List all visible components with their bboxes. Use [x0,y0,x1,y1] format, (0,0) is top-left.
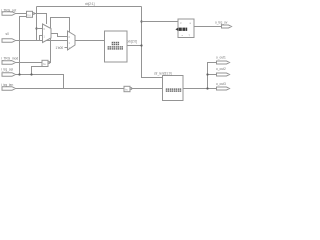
text module U2 dark band [175,28,187,31]
input port P2 [2,39,16,43]
svg-text:i_trg_len: i_trg_len [1,83,14,87]
svg-text:o_trg_ov: o_trg_ov [215,20,228,24]
module U3 trigger block [163,76,184,101]
svg-text:i_TRG_set: i_TRG_set [1,9,17,13]
wire G1 output [34,14,47,25]
module U1 shift register block [105,31,128,62]
wire P2 bus to mux M2 [16,40,68,42]
svg-text:1'b00: 1'b00 [56,46,64,50]
wire U3 output to out3 [183,88,217,90]
wire G2 output riser to M2 select [49,18,70,63]
wire input port P1 to gate G1 [16,13,27,15]
svg-text:s0: s0 [6,32,10,36]
wire P4 select bus [16,75,64,89]
node junction U1 out [140,44,142,46]
node junction M1 input [35,27,37,29]
wire G1 lower input from select column [20,17,27,75]
output port out1 [217,61,230,64]
input port P1 [2,12,16,16]
mux M2 [68,31,76,50]
wire node to mux M1 input 0 [37,28,43,30]
module U2 compare block [178,19,194,38]
wire constant stub to M2 [65,47,68,49]
wire M1 input 1 riser [40,36,43,41]
wire G2 lower input from select column [32,67,43,75]
input port P3 [2,61,16,65]
svg-text:o_out3: o_out3 [216,82,226,86]
svg-text:ctr_len[31:0]: ctr_len[31:0] [154,72,172,76]
svg-text:i_trg_sel: i_trg_sel [1,68,14,72]
svg-text:xb[2:0]: xb[2:0] [128,40,138,44]
node junction select to G2 [30,73,32,75]
output port out2 [217,73,230,76]
wire output riser [208,63,217,89]
wire right vertical bus down to U3 [142,7,163,78]
node junction select to G1 [18,73,20,75]
buffer gate G1 [27,11,35,17]
wire M1 output to M2 input [51,34,68,37]
node junction out2 [206,73,208,75]
wire branch to out2 [208,74,217,76]
svg-text:o_out1: o_out1 [216,56,226,60]
wire U1 output to right bus [127,45,142,47]
output port o_trg_ov [222,25,232,28]
svg-text:o_out2: o_out2 [216,67,226,71]
text module U1 line2 [108,46,123,49]
svg-text:i_TRG_mod: i_TRG_mod [1,57,19,61]
wire bus to U2 input [142,21,179,23]
input port P5 [2,87,16,91]
wire P3 to gate G2 [16,62,43,64]
wire riser from G1 output to top bus and down to node [36,7,38,41]
wire G3 output to U3 [132,88,163,90]
text module U1 line1 [112,42,119,45]
wire P5 to gate G3 [16,88,125,90]
wire M2 output to U1 [75,40,105,42]
buffer gate G2 [42,60,50,66]
text module U3 [166,88,181,91]
wire U2 output to port [194,26,222,28]
output port out3 [217,87,230,90]
input port P4 [2,73,16,77]
node junction bus to U2 [140,20,142,22]
buffer gate G3 [124,86,132,91]
mux M1 [43,24,52,43]
wire top feedback bus [37,6,142,8]
svg-text:xb[2:1]: xb[2:1] [85,2,95,6]
node junction out3 [206,87,208,89]
